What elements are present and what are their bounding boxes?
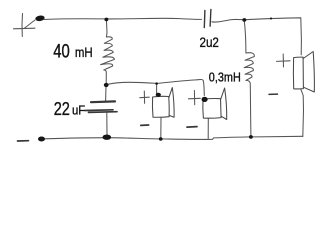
svg-text:22: 22 bbox=[54, 99, 70, 119]
svg-text:mH: mH bbox=[75, 45, 93, 61]
svg-text:uF: uF bbox=[72, 102, 85, 117]
svg-text:40: 40 bbox=[53, 42, 70, 63]
svg-text:0,3mH: 0,3mH bbox=[209, 70, 241, 85]
svg-text:2u2: 2u2 bbox=[200, 35, 219, 51]
